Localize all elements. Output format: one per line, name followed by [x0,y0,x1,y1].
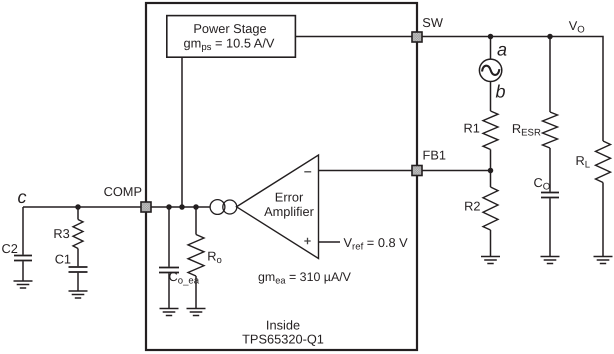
svg-text:a: a [497,40,507,60]
svg-text:VO: VO [569,18,585,36]
svg-text:Co_ea: Co_ea [169,269,200,287]
svg-text:CO: CO [534,175,551,193]
svg-text:R1: R1 [464,121,480,136]
svg-text:FB1: FB1 [423,148,446,163]
svg-text:gmea = 310 µA/V: gmea = 310 µA/V [258,270,352,286]
svg-text:RL: RL [576,153,591,171]
svg-text:Error: Error [275,189,304,204]
svg-text:C1: C1 [55,252,71,267]
svg-text:SW: SW [422,15,444,30]
svg-text:b: b [496,82,506,102]
svg-text:COMP: COMP [104,184,142,199]
svg-text:Ro: Ro [207,249,222,267]
svg-text:Vref = 0.8 V: Vref = 0.8 V [344,235,409,253]
svg-text:TPS65320-Q1: TPS65320-Q1 [242,331,324,346]
svg-text:Power Stage: Power Stage [193,21,266,36]
svg-text:RESR: RESR [512,121,541,139]
svg-text:gmps = 10.5 A/V: gmps = 10.5 A/V [184,36,275,54]
svg-text:R3: R3 [53,226,69,241]
svg-text:c: c [18,187,27,207]
svg-text:Amplifier: Amplifier [264,204,315,219]
svg-text:C2: C2 [2,241,18,256]
svg-text:R2: R2 [464,198,480,213]
